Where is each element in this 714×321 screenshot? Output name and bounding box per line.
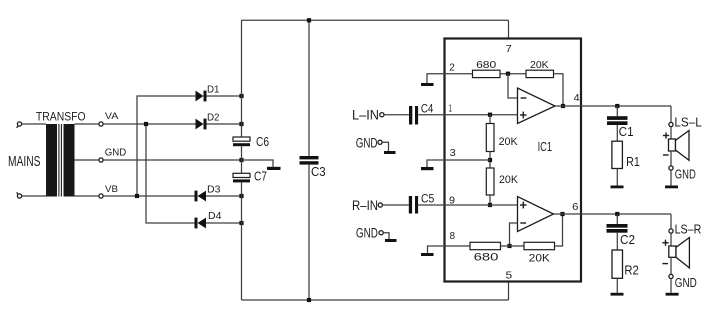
wire <box>75 123 99 125</box>
wire to LS-R <box>670 214 672 229</box>
junction <box>239 122 243 126</box>
wire centre-tap ground stub <box>242 160 274 167</box>
wire <box>670 170 672 185</box>
wire rail bottom section <box>241 182 243 300</box>
resistor 20K divider lower <box>486 168 494 195</box>
svg-text:GND: GND <box>356 226 378 241</box>
node GND terminal (R input) <box>379 231 383 235</box>
speaker LS-L plus sign <box>663 132 669 138</box>
capacitor C2 <box>607 224 628 233</box>
speaker LS-R <box>669 238 690 268</box>
svg-text:TRANSFO: TRANSFO <box>36 109 86 123</box>
svg-text:C1: C1 <box>619 124 634 139</box>
svg-text:2: 2 <box>449 62 455 74</box>
svg-text:5: 5 <box>506 270 513 282</box>
diode D1 <box>196 91 207 102</box>
wire pin2 to R feedback <box>445 73 473 75</box>
op-amp U1a minus sign <box>521 97 527 99</box>
diode D3 <box>195 191 207 202</box>
wire <box>22 195 46 197</box>
node VB terminal <box>99 194 103 198</box>
wire bottom rail <box>242 299 509 301</box>
wire C3 branch lower <box>308 165 310 300</box>
wire pin4 output row <box>555 105 671 107</box>
svg-text:GND: GND <box>105 148 127 159</box>
junction <box>307 298 311 302</box>
resistor R2 <box>612 250 623 278</box>
wire to LS-L <box>670 106 672 122</box>
svg-text:20K: 20K <box>530 60 549 71</box>
svg-text:1: 1 <box>449 102 452 114</box>
junction <box>239 158 243 162</box>
speaker LS-L <box>669 131 690 161</box>
svg-text:LS–R: LS–R <box>675 222 702 237</box>
op-amp U1b <box>518 197 554 232</box>
wire <box>75 159 99 161</box>
ground <box>385 239 397 242</box>
wire inverting input rise <box>510 223 518 246</box>
wire VA down to D4 row <box>146 124 195 223</box>
wire <box>616 233 618 250</box>
resistor 680 (right channel) <box>470 242 501 249</box>
svg-text:3: 3 <box>450 147 456 159</box>
wire <box>670 279 672 293</box>
ground <box>421 167 434 170</box>
svg-text:C2: C2 <box>620 232 635 247</box>
svg-text:MAINS: MAINS <box>8 153 41 170</box>
wire <box>75 195 99 197</box>
wire pin8 external stub <box>428 246 445 253</box>
ground <box>665 186 678 189</box>
wire <box>206 222 242 224</box>
wire between dividers <box>489 152 491 169</box>
svg-text:C4: C4 <box>421 103 434 115</box>
svg-text:R2: R2 <box>624 263 638 278</box>
speaker LS-L minus sign <box>663 154 669 156</box>
svg-text:D1: D1 <box>207 85 220 96</box>
node VA terminal <box>99 122 103 126</box>
op-amp U1b plus sign <box>520 202 527 209</box>
op-amp U1a plus sign <box>520 112 527 119</box>
wire C1 stem <box>616 106 618 116</box>
wire VA to D2 <box>103 123 195 125</box>
node R-IN terminal <box>378 203 382 207</box>
node GND terminal (L input) <box>378 140 382 144</box>
svg-text:D4: D4 <box>208 211 222 222</box>
svg-text:C3: C3 <box>311 165 326 179</box>
node L-IN terminal <box>380 113 384 117</box>
wire pin3 external stub <box>427 160 445 167</box>
junction <box>615 104 619 108</box>
wire 20K divider top <box>489 115 491 124</box>
wire VB to D3 <box>103 195 194 197</box>
svg-text:GND: GND <box>675 167 696 182</box>
capacitor C3 <box>300 156 319 165</box>
wire pin7 supply drop <box>508 20 510 38</box>
wire C2 stem <box>616 214 618 224</box>
transformer T1 <box>46 124 75 197</box>
diode D2 <box>196 119 207 130</box>
svg-text:8: 8 <box>450 230 456 242</box>
wire <box>670 151 672 166</box>
node LS-R terminal <box>669 229 673 233</box>
capacitor C1 <box>607 116 628 125</box>
svg-text:D3: D3 <box>207 185 221 196</box>
wire pin8 row <box>445 245 471 247</box>
svg-text:L–IN: L–IN <box>352 106 379 122</box>
speaker LS-R plus sign <box>662 240 668 246</box>
capacitor C4 <box>409 106 418 125</box>
capacitor C6 <box>233 137 250 146</box>
svg-text:20K: 20K <box>499 136 519 148</box>
wire feedback down to output <box>554 74 564 106</box>
ground <box>611 186 624 189</box>
svg-text:R–IN: R–IN <box>352 197 378 213</box>
svg-text:LS–L: LS–L <box>674 115 701 130</box>
wire supply rail top section <box>241 20 243 137</box>
resistor 20K feedback (right channel) <box>524 242 555 249</box>
node LS-L terminal <box>669 122 673 126</box>
op-amp U1a <box>518 88 556 124</box>
resistor R1 <box>612 141 623 168</box>
svg-text:R1: R1 <box>626 154 640 169</box>
junction <box>560 212 564 216</box>
wire <box>207 95 242 97</box>
ground <box>267 167 281 170</box>
capacitor C5 <box>409 196 418 214</box>
capacitor C7 <box>233 173 250 182</box>
wire <box>616 169 618 186</box>
wire top rail <box>242 19 509 21</box>
svg-text:GND: GND <box>356 136 378 151</box>
junction <box>488 113 492 117</box>
wire <box>616 278 618 293</box>
resistor 20K divider upper <box>486 124 494 152</box>
svg-text:VB: VB <box>105 184 118 195</box>
wire pin3 row <box>445 159 491 161</box>
wire inverting input drop <box>508 74 518 98</box>
ground <box>666 293 679 296</box>
op-amp U1 package IC1 box <box>445 39 582 282</box>
wire <box>206 195 242 197</box>
transformer T1 primary terminal (top) <box>17 122 22 128</box>
node GND terminal (LS-R) <box>669 274 673 278</box>
wire rail mid section <box>241 146 243 173</box>
transformer T1 primary terminal (bottom) <box>17 192 22 198</box>
wire <box>501 245 525 247</box>
ground <box>384 151 396 154</box>
svg-text:C7: C7 <box>254 170 267 184</box>
wire pin9 row <box>418 204 517 206</box>
wire divider bottom <box>489 195 491 205</box>
wire <box>22 123 46 125</box>
junction <box>135 194 139 198</box>
wire <box>616 125 618 141</box>
wire <box>670 257 672 274</box>
junction <box>144 122 148 126</box>
ground <box>421 83 434 86</box>
wire GND row <box>103 159 241 161</box>
svg-text:680: 680 <box>476 60 497 71</box>
junction <box>239 194 243 198</box>
wire pin6 output row <box>554 213 672 215</box>
ground <box>421 253 434 256</box>
junction <box>506 72 510 76</box>
wire feedback up to output <box>555 214 563 246</box>
wire pin5 drop <box>508 282 510 301</box>
wire <box>670 233 672 246</box>
svg-text:C5: C5 <box>421 193 434 205</box>
svg-text:680: 680 <box>474 251 499 263</box>
op-amp U1b minus sign <box>520 222 526 224</box>
svg-text:VA: VA <box>105 111 119 122</box>
svg-text:GND: GND <box>675 275 697 290</box>
svg-text:D2: D2 <box>207 113 220 124</box>
svg-text:C6: C6 <box>256 135 269 149</box>
node GND terminal (transformer centre tap) <box>99 158 103 162</box>
resistor 680 (left channel) <box>473 70 501 77</box>
junction <box>507 244 511 248</box>
wire <box>382 142 388 151</box>
node GND terminal (LS-L) <box>669 166 673 170</box>
wire <box>383 233 389 239</box>
junction <box>561 104 565 108</box>
wire <box>382 204 408 206</box>
svg-text:20K: 20K <box>499 174 519 186</box>
wire C3 branch upper <box>308 20 310 156</box>
junction <box>307 18 311 22</box>
wire <box>207 123 242 125</box>
wire <box>384 114 409 116</box>
svg-text:IC1: IC1 <box>538 140 553 154</box>
svg-text:7: 7 <box>506 43 512 55</box>
speaker LS-R minus sign <box>662 263 668 265</box>
svg-text:20K: 20K <box>529 252 551 264</box>
junction <box>239 94 243 98</box>
svg-text:6: 6 <box>572 201 578 213</box>
wire VB up to D1 row <box>137 96 196 196</box>
junction <box>488 158 492 162</box>
junction <box>615 212 619 216</box>
svg-text:4: 4 <box>574 92 580 104</box>
resistor 20K feedback (left channel) <box>526 70 554 77</box>
ground <box>611 293 624 296</box>
junction <box>488 203 492 207</box>
junction <box>239 221 243 225</box>
diode D4 <box>195 218 207 229</box>
wire pin1 row <box>418 114 517 116</box>
wire <box>670 127 672 139</box>
wire <box>500 73 526 75</box>
wire pin2 external stub <box>427 74 445 83</box>
